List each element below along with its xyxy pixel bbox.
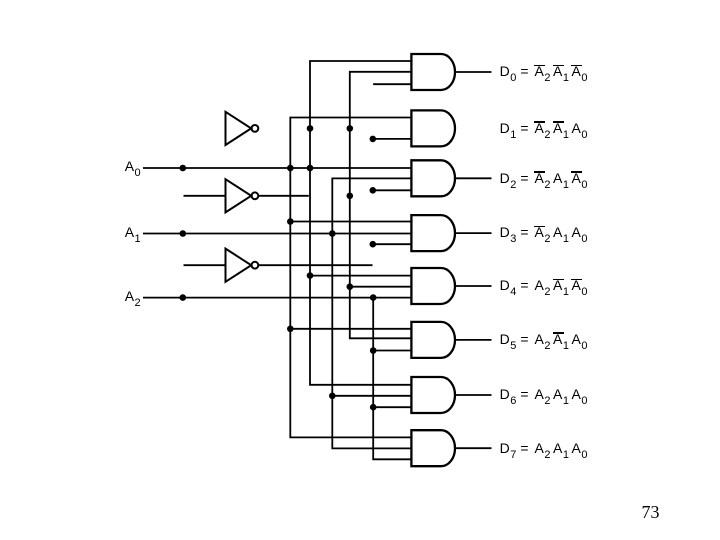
node D2 bottom start <box>370 187 377 194</box>
label input A0 <box>125 157 142 175</box>
and-gate D3 <box>411 215 455 251</box>
node A1 tap <box>180 230 187 237</box>
label input A2 <box>125 287 142 305</box>
and-gate D5 <box>411 322 455 358</box>
and-gate D0 <box>411 54 455 90</box>
node B3 inv2 junction <box>347 193 354 200</box>
label D0 equation <box>500 62 589 80</box>
inverter U2 triangle <box>226 179 252 212</box>
wire inverter U3 input stub <box>184 264 226 266</box>
wire bus B4 (D2 mid / D7 mid) <box>332 178 411 448</box>
label D4 equation <box>500 276 589 294</box>
label D6 equation <box>500 385 589 403</box>
wire D1 bottom input <box>373 138 412 140</box>
and-gate D6 <box>411 377 455 413</box>
wire D4 top input <box>310 275 411 277</box>
label D7 equation <box>500 439 589 457</box>
node A0-B2 junction <box>307 165 314 172</box>
page number <box>642 502 660 523</box>
node A2 tap <box>180 294 187 301</box>
wire D0 bottom input <box>373 83 411 85</box>
wire input A2 line <box>143 297 411 299</box>
node B4-D6 junction <box>329 393 336 400</box>
node A0-B1 junction <box>287 165 294 172</box>
wire D3 output <box>455 232 492 234</box>
node A0 tap <box>180 165 187 172</box>
label D1 equation <box>500 119 589 137</box>
wire inverter U3 output <box>258 264 372 266</box>
inverter U1 triangle <box>226 112 252 145</box>
wire input A1 line <box>143 233 411 235</box>
inverter U3 triangle <box>226 249 252 282</box>
node B5-D5 junction <box>370 347 377 354</box>
wire D6 bottom input <box>373 406 411 408</box>
wire D2 output <box>455 177 492 179</box>
wire input A0 line <box>143 167 411 169</box>
node B1-D3 junction <box>287 218 294 225</box>
node D3 bottom start <box>370 241 377 248</box>
wire bus B1 (D1 top / D7 top) <box>290 118 411 438</box>
node B2-D4 junction <box>307 272 314 279</box>
wire bus B2 (D0 top / D6 top) <box>310 61 411 385</box>
node B5-D6 junction <box>370 404 377 411</box>
label D2 equation <box>500 169 589 187</box>
wire D4 middle input <box>350 286 412 288</box>
node B3-D4 junction <box>347 283 354 290</box>
wire D6 output <box>455 394 492 396</box>
inverter U3 bubble <box>252 262 259 269</box>
wire inverter U2 output <box>258 195 308 197</box>
node D1 bottom start <box>370 136 377 143</box>
wire bus B5 (A2 / D7 bottom) <box>373 298 411 460</box>
node A2-B5 junction <box>370 294 377 301</box>
wire D0 output <box>455 71 492 73</box>
and-gate D7 <box>411 430 455 466</box>
node B1-D5 junction <box>287 326 294 333</box>
label D5 equation <box>500 330 589 348</box>
label input A1 <box>125 223 142 241</box>
node B3 row1 junction <box>347 125 354 132</box>
wire D3 top input <box>290 221 411 223</box>
wire D5 output <box>455 339 492 341</box>
wire D2 bottom input <box>373 189 412 191</box>
wire D5 bottom input <box>373 350 411 352</box>
wire D7 output <box>455 447 492 449</box>
and-gate D4 <box>411 268 455 304</box>
wire inverter U2 input stub <box>184 195 226 197</box>
wire D5 top input <box>290 328 411 330</box>
node B2 row1 junction <box>307 125 314 132</box>
wire bus B3 (D0 mid / D5 mid) <box>350 72 412 339</box>
wire D6 middle input <box>332 395 411 397</box>
inverter U1 bubble <box>252 125 259 132</box>
and-gate D1 <box>411 110 455 146</box>
wire D3 bottom input <box>373 243 412 245</box>
and-gate D2 <box>411 160 455 196</box>
inverter U2 bubble <box>252 192 259 199</box>
node A1-B4 junction <box>329 230 336 237</box>
wire D4 output <box>455 285 492 287</box>
label D3 equation <box>500 223 589 241</box>
